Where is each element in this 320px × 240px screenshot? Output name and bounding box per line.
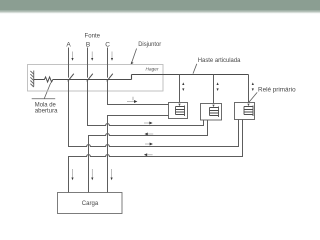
wire relay 3 output to load A: [69, 120, 243, 193]
svg-text:A: A: [66, 41, 71, 48]
relay 2 primary relay box: [201, 104, 222, 121]
svg-text:C: C: [105, 41, 110, 48]
stroke arrows relay 1 plunger: [182, 82, 184, 91]
operating rod right segment haste articulada: [132, 74, 249, 76]
relay 1 plunger tip: [178, 104, 180, 107]
plunger link relay 2: [213, 75, 215, 107]
wire phase A to relay 3 input: [69, 80, 239, 147]
label Mola de abertura: [35, 101, 58, 114]
pointer line Disjuntor: [131, 49, 137, 65]
relay 3 primary relay box: [235, 103, 255, 120]
current arrow phase C top: [111, 52, 113, 61]
relay 3 coil: [244, 106, 253, 117]
svg-text:Fonte: Fonte: [85, 32, 101, 39]
current arrow load A bottom: [71, 169, 73, 180]
svg-text:Carga: Carga: [82, 200, 99, 207]
breaker contact blade phase C: [107, 74, 113, 82]
current arrow load B bottom: [91, 169, 93, 180]
load box Carga: [58, 193, 123, 214]
wire phase B upper: [87, 48, 89, 78]
current arrow into relay 1: [127, 97, 137, 103]
wire phase C to relay 1 input: [108, 80, 169, 105]
svg-text:Relé primário: Relé primário: [258, 87, 296, 94]
wire phase C upper: [107, 48, 109, 78]
breaker enclosure outline: [28, 65, 164, 92]
current arrow into relay 3: [145, 143, 153, 146]
stroke arrows relay 3 plunger: [252, 82, 254, 91]
relay 2 coil: [210, 107, 219, 118]
plunger link relay 1: [179, 75, 181, 107]
svg-text:B: B: [86, 41, 90, 48]
relay 2 plunger tip: [212, 105, 214, 108]
spring opening spring: [34, 77, 53, 82]
wire relay 2 output to load B: [89, 120, 208, 193]
current arrow load C bottom: [111, 169, 113, 180]
stroke arrows relay 2 plunger: [217, 82, 219, 91]
pointer line Mola de abertura: [32, 83, 56, 99]
operating rod step: [131, 75, 133, 80]
wire relay 1 output to load C: [108, 116, 169, 193]
current arrow phase A top: [71, 52, 73, 61]
current arrow out of relay 3: [144, 153, 153, 156]
svg-text:Haste articulada: Haste articulada: [198, 57, 241, 64]
relay 1 primary relay box: [169, 103, 188, 119]
svg-text:Hager: Hager: [146, 66, 159, 71]
breaker contact blade phase B: [87, 74, 93, 82]
plunger link relay 3: [248, 75, 250, 107]
current arrow out of relay 2: [145, 133, 154, 136]
svg-text:abertura: abertura: [35, 108, 58, 115]
current arrow phase B top: [91, 52, 93, 61]
pointer line Haste articulada: [193, 64, 197, 74]
wire phase A upper: [68, 48, 70, 78]
operating rod left segment: [53, 79, 132, 81]
svg-text:Disjuntor: Disjuntor: [138, 41, 162, 48]
relay 3 plunger tip: [247, 104, 249, 107]
pointer line Rele primario: [249, 92, 257, 102]
wall anchor: [30, 71, 33, 88]
breaker contact blade phase A: [68, 74, 74, 82]
current arrow into relay 2: [144, 122, 153, 125]
relay 1 coil: [176, 106, 185, 117]
wire phase B to relay 2 input: [88, 80, 204, 126]
